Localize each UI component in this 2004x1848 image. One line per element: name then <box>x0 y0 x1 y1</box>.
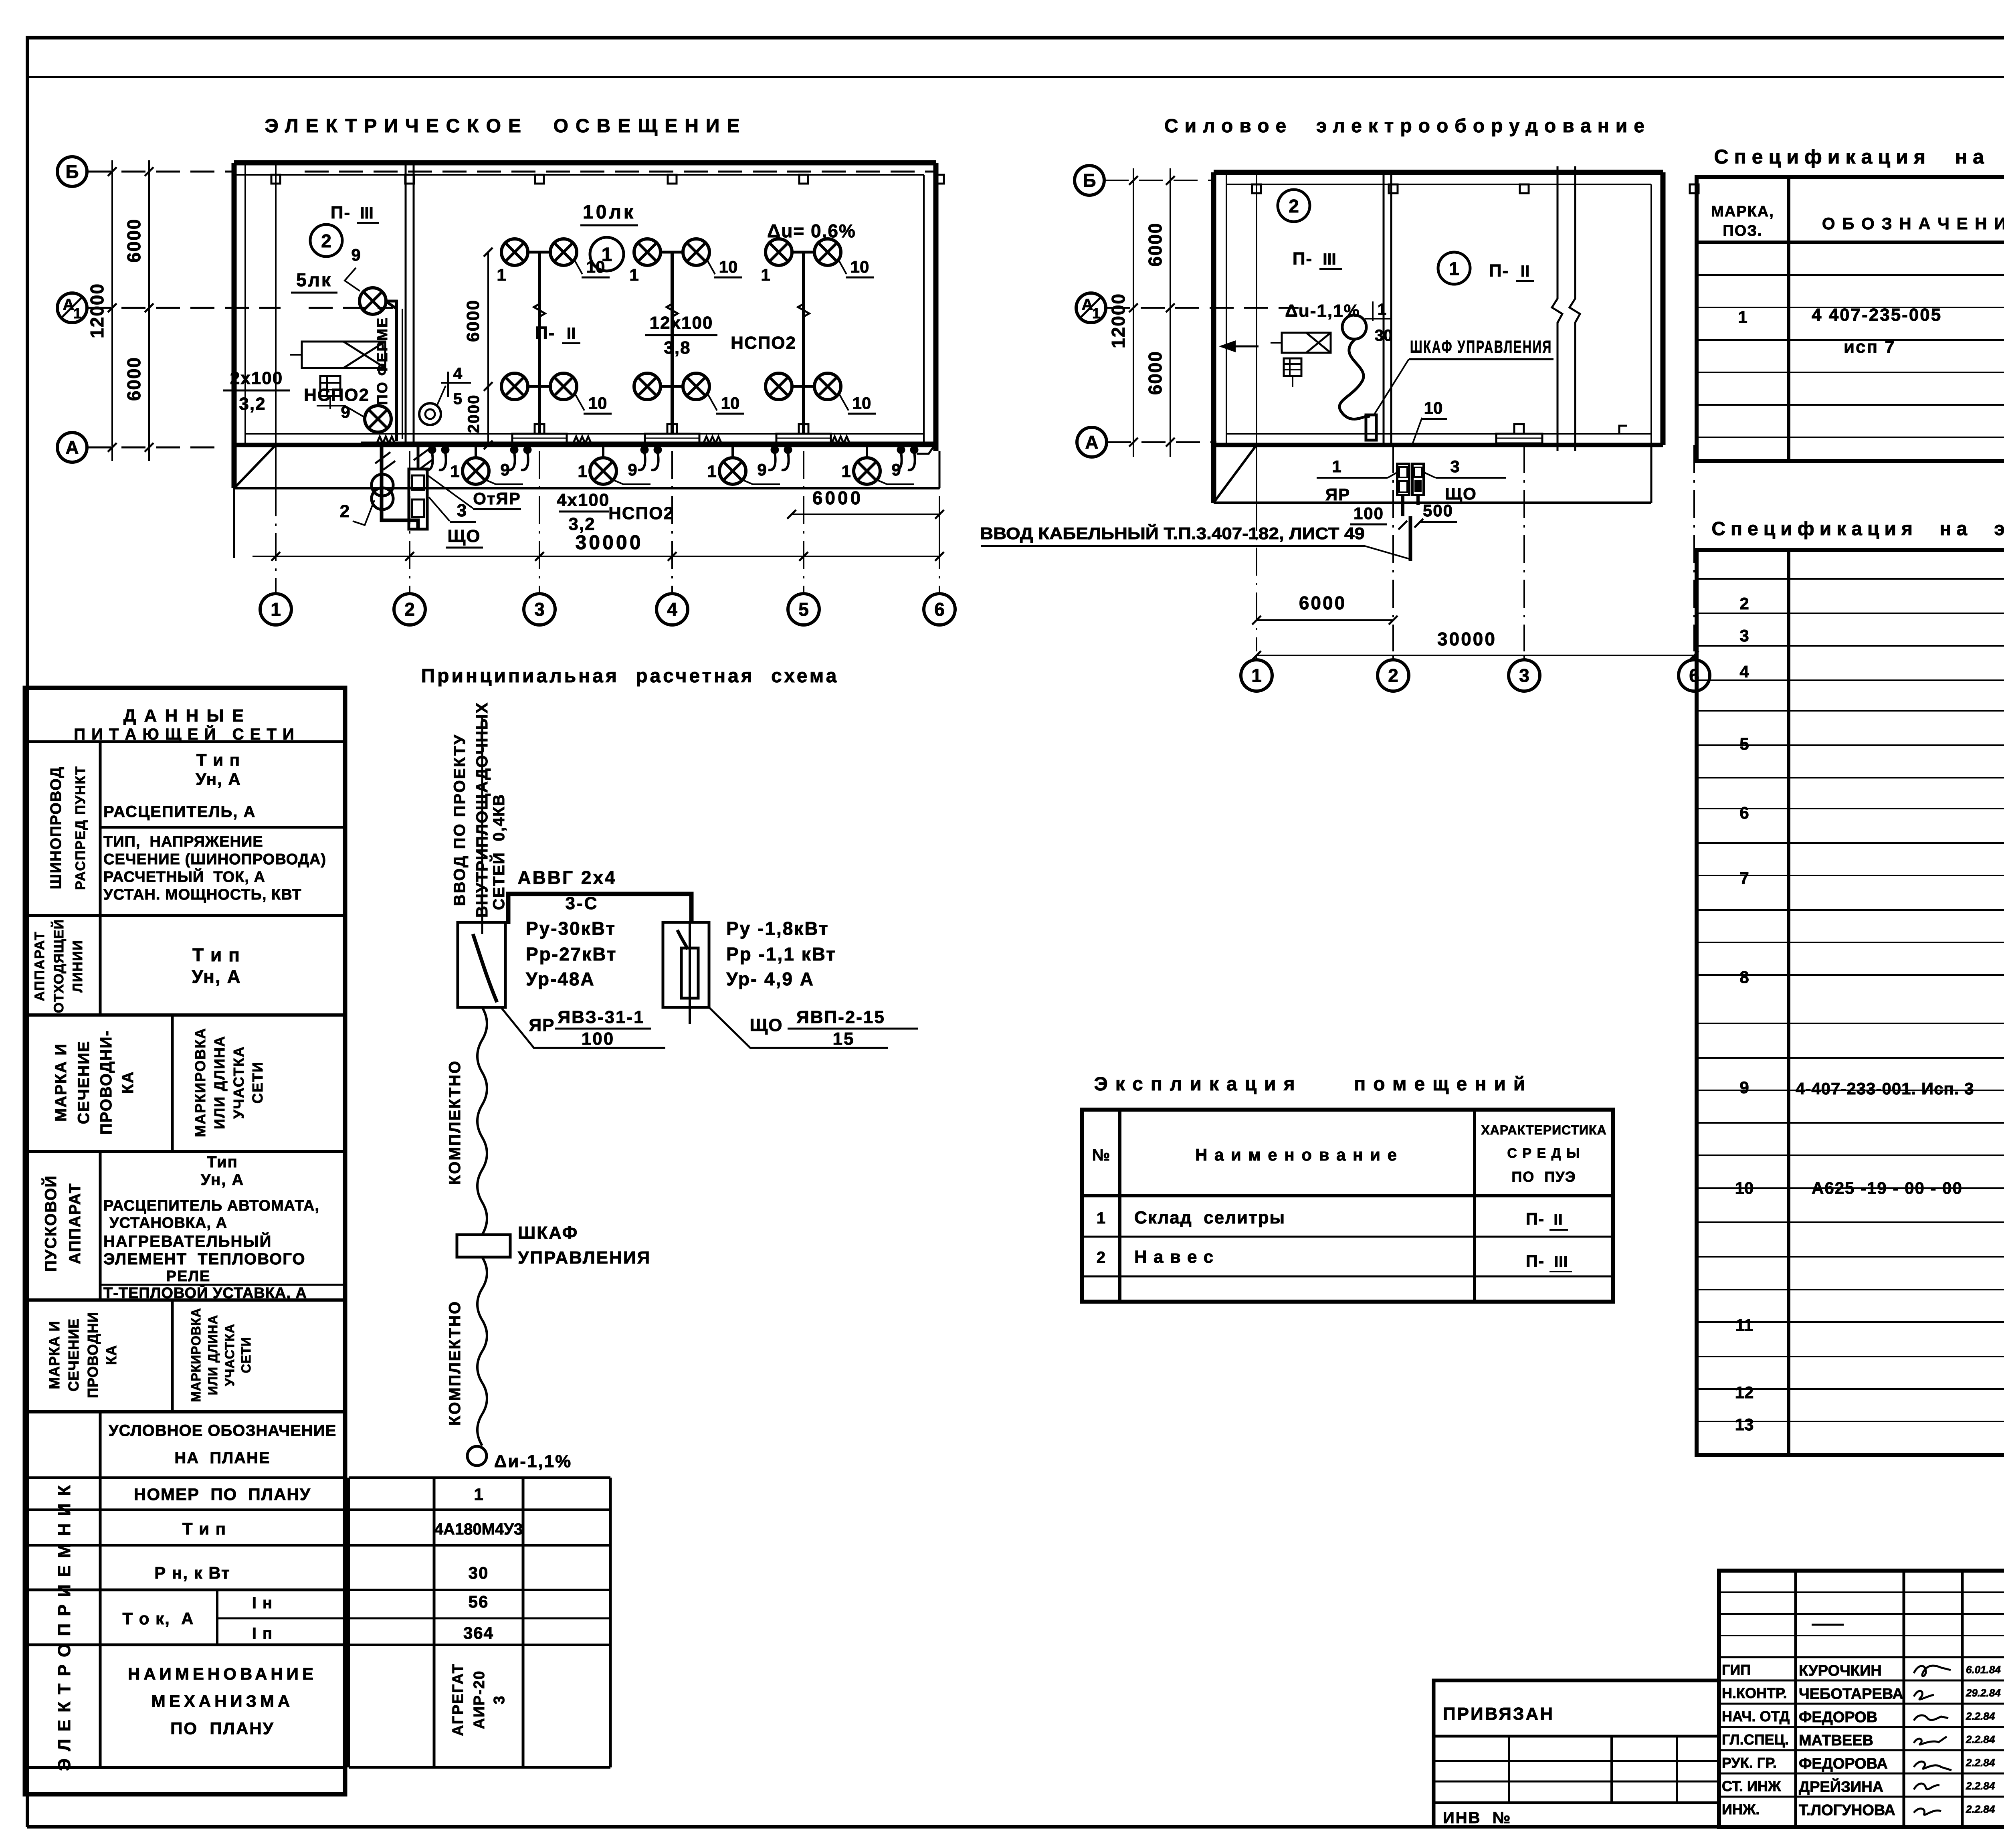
scheme squiggle komplektno 1 <box>477 1007 487 1235</box>
svg-text:НАЧ. ОТД: НАЧ. ОТД <box>1722 1708 1790 1725</box>
bottom lamp 3 drop wire <box>731 443 734 459</box>
svg-text:ПРОВОДНИ: ПРОВОДНИ <box>85 1312 101 1398</box>
spec2 row lines <box>1697 578 2004 580</box>
position circle 2 naves <box>310 224 342 257</box>
power position circle 2 <box>1278 190 1310 222</box>
svg-text:ЛИНИИ: ЛИНИИ <box>70 940 85 993</box>
left table label column divider sec4 <box>99 1152 102 1300</box>
svg-text:2х100: 2х100 <box>230 368 283 388</box>
svg-text:9: 9 <box>628 460 637 479</box>
svg-text:1: 1 <box>474 1485 483 1504</box>
svg-text:1: 1 <box>450 462 459 481</box>
svg-text:ПРИВЯЗАН: ПРИВЯЗАН <box>1443 1704 1554 1724</box>
svg-text:СЕЧЕНИЕ (ШИНОПРОВОДА): СЕЧЕНИЕ (ШИНОПРОВОДА) <box>103 851 326 868</box>
svg-text:4х100: 4х100 <box>557 490 610 510</box>
svg-text:ИЛИ ДЛИНА: ИЛИ ДЛИНА <box>211 1035 228 1129</box>
axis row circle A/1 <box>57 293 87 323</box>
leader 9 bottom lamp 1 <box>485 479 523 484</box>
lamp pair axis 3 top left <box>501 239 528 265</box>
svg-text:2.2.84: 2.2.84 <box>1966 1780 1995 1792</box>
explication outer frame <box>1082 1110 1613 1302</box>
svg-text:1: 1 <box>1097 1209 1105 1227</box>
svg-text:4: 4 <box>453 365 463 382</box>
leader lower 9 <box>317 406 364 417</box>
svg-text:2.2.84: 2.2.84 <box>1966 1803 1995 1815</box>
svg-text:А: А <box>65 437 79 458</box>
svg-text:УЧАСТКА: УЧАСТКА <box>230 1046 247 1119</box>
svg-text:2: 2 <box>1739 594 1749 613</box>
svg-text:ВВОД КАБЕЛЬНЫЙ Т.П.3.407-182,: ВВОД КАБЕЛЬНЫЙ Т.П.3.407-182, ЛИСТ 49 <box>980 524 1365 543</box>
svg-text:РАСПРЕД ПУНКТ: РАСПРЕД ПУНКТ <box>73 766 88 890</box>
building left wall inner line <box>244 163 246 445</box>
svg-text:9: 9 <box>1739 1078 1749 1097</box>
lamp pair axis 3 mid right <box>550 373 577 400</box>
svg-text:Склад селитры: Склад селитры <box>1134 1208 1285 1227</box>
svg-text:МАРКА,: МАРКА, <box>1711 203 1774 220</box>
lamp pair stub wires axis 3 mid <box>527 385 552 388</box>
svg-text:2.2.84: 2.2.84 <box>1966 1757 1995 1769</box>
svg-text:6: 6 <box>934 599 945 620</box>
switch drop hooks 1 <box>428 446 436 454</box>
power YaR box <box>1397 464 1409 495</box>
svg-text:ШКАФ: ШКАФ <box>518 1223 578 1243</box>
axis row circle A <box>57 433 87 462</box>
scheme incoming line <box>481 715 483 934</box>
svg-text:Р н, к Вт: Р н, к Вт <box>154 1563 230 1582</box>
power break mark right <box>1570 166 1580 451</box>
lamp pair stub wires axis 4 mid <box>659 385 684 388</box>
svg-text:1: 1 <box>73 305 81 321</box>
svg-text:ПО ФЕРМЕ: ПО ФЕРМЕ <box>374 317 390 405</box>
axis 1 dash-dot line below building <box>275 488 277 592</box>
transformer circles pos 2 <box>372 474 393 496</box>
svg-text:Рр -1,1 кВт: Рр -1,1 кВт <box>726 944 836 964</box>
svg-text:3: 3 <box>1739 626 1749 645</box>
svg-text:КОМПЛЕКТНО: КОМПЛЕКТНО <box>446 1060 464 1185</box>
spec2 column lines <box>1787 550 1790 1455</box>
title block outer frame <box>1719 1571 2004 1827</box>
svg-text:12: 12 <box>1735 1383 1754 1402</box>
leader to label 9 upper <box>345 268 360 291</box>
left table In Ip divider <box>217 1618 610 1620</box>
svg-text:исп 7: исп 7 <box>1844 337 1896 357</box>
building right wall inner line <box>923 175 925 445</box>
left table sec3 half divider <box>171 1015 174 1152</box>
signature table empty row lines <box>1719 1591 2004 1593</box>
svg-text:ПРОВОДНИ-: ПРОВОДНИ- <box>97 1030 115 1135</box>
svg-text:РЕЛЕ: РЕЛЕ <box>166 1268 211 1285</box>
svg-text:III: III <box>1554 1254 1568 1270</box>
svg-text:Принципиальная расчетная схема: Принципиальная расчетная схема <box>421 665 839 687</box>
power wall end hooks right <box>1619 426 1627 434</box>
left table tok sub divider <box>216 1590 218 1645</box>
power dim line 6000 <box>1257 619 1393 621</box>
power dim ticks at cable <box>1398 521 1407 530</box>
wire from canopy upper lamp to riser <box>386 301 396 439</box>
svg-text:2: 2 <box>1097 1249 1105 1266</box>
svg-text:2: 2 <box>1289 196 1299 216</box>
power position circle 1 <box>1438 252 1470 284</box>
switch drop hooks 3 <box>640 446 648 454</box>
svg-text:2.2.84: 2.2.84 <box>1966 1733 1995 1745</box>
svg-text:12000: 12000 <box>1108 293 1129 348</box>
bottom row lamp 4 <box>854 458 880 484</box>
power cable down from boxes <box>1401 495 1404 516</box>
leader 9 bottom lamp 4 <box>876 479 914 484</box>
leader YaR <box>1388 471 1400 478</box>
lamp pair stub wires axis 5 top <box>791 251 816 254</box>
power axis circle 3 bottom <box>1509 660 1540 691</box>
axis column circle 2 <box>394 594 425 625</box>
power dim line 30000 <box>1257 655 1694 656</box>
svg-text:8: 8 <box>1739 968 1749 987</box>
svg-text:О Б О З Н А Ч Е Н И Е: О Б О З Н А Ч Е Н И Е <box>1822 214 2004 233</box>
svg-text:РУК. ГР.: РУК. ГР. <box>1722 1755 1777 1771</box>
privyazan inner line <box>1434 1735 1719 1738</box>
svg-text:МАТВЕЕВ: МАТВЕЕВ <box>1799 1732 1873 1749</box>
svg-text:РАСЦЕПИТЕЛЬ, А: РАСЦЕПИТЕЛЬ, А <box>103 803 256 821</box>
svg-text:ЭЛЕКТРИЧЕСКОЕ ОСВЕЩЕНИЕ: ЭЛЕКТРИЧЕСКОЕ ОСВЕЩЕНИЕ <box>265 115 747 137</box>
power axis1 line in canopy <box>1256 172 1257 503</box>
axis 1 line through canopy <box>275 163 277 488</box>
svg-text:СЕТИ: СЕТИ <box>249 1061 266 1104</box>
switch drop hooks 4 <box>771 446 779 454</box>
scheme fuse rect <box>681 948 698 998</box>
power axis circle 6 bottom <box>1679 660 1710 691</box>
svg-text:2: 2 <box>321 230 331 251</box>
svg-text:364: 364 <box>463 1624 494 1642</box>
leader shkaf to cabinet <box>1374 359 1409 415</box>
scheme shkaf upravleniya box <box>457 1235 510 1257</box>
svg-text:I н: I н <box>252 1594 273 1612</box>
svg-text:30000: 30000 <box>575 531 643 554</box>
svg-text:Ур- 4,9 А: Ур- 4,9 А <box>726 968 814 989</box>
svg-text:4А180М4У3: 4А180М4У3 <box>434 1520 523 1538</box>
svg-text:Экспликация помещений: Экспликация помещений <box>1094 1074 1533 1095</box>
beam mount bracket axis 4 <box>645 434 699 443</box>
top wall pilaster at axis 4 <box>668 175 677 184</box>
svg-text:ФЕДОРОВА: ФЕДОРОВА <box>1799 1755 1888 1772</box>
svg-text:5лк: 5лк <box>296 269 332 290</box>
leader 9 bottom lamp 3 <box>741 479 780 484</box>
svg-text:МАРКИРОВКА: МАРКИРОВКА <box>192 1027 208 1137</box>
bottom row lamp 3 <box>719 458 746 484</box>
svg-text:НСПО2: НСПО2 <box>608 503 674 523</box>
svg-text:НОМЕР ПО ПЛАНУ: НОМЕР ПО ПЛАНУ <box>134 1485 311 1504</box>
power canopy bottom edge <box>1214 501 1651 504</box>
explication col line 1 <box>1118 1110 1121 1302</box>
scheme ShchO breaker blade <box>677 930 688 949</box>
power building bottom wall inner <box>1226 433 1651 435</box>
leader label 2 <box>353 500 374 525</box>
axis row circle B <box>57 157 87 186</box>
svg-text:А: А <box>1085 432 1098 453</box>
svg-text:6000: 6000 <box>123 357 144 401</box>
svg-text:АВВГ 2х4: АВВГ 2х4 <box>517 867 616 888</box>
svg-text:ИЛИ ДЛИНА: ИЛИ ДЛИНА <box>206 1315 220 1395</box>
svg-text:П-: П- <box>1526 1252 1544 1270</box>
interior dimension line <box>487 252 489 445</box>
bottom row lamp 1 <box>463 458 489 484</box>
svg-text:МАРКА И: МАРКА И <box>46 1321 63 1389</box>
building left wall <box>232 163 237 488</box>
svg-text:Б: Б <box>65 161 79 182</box>
svg-text:ЯВП-2-15: ЯВП-2-15 <box>796 1007 885 1027</box>
svg-text:30: 30 <box>1375 327 1393 344</box>
svg-text:4-407-233-001. Исп. 3: 4-407-233-001. Исп. 3 <box>1796 1079 1974 1098</box>
internal wall between rooms <box>405 163 407 445</box>
leader 10 mid axis 4 <box>708 395 717 410</box>
svg-text:4: 4 <box>667 599 677 620</box>
svg-text:10лк: 10лк <box>583 202 636 223</box>
lamp pair axis 5 mid right <box>814 373 841 400</box>
power cable main drop <box>1409 516 1412 561</box>
svg-text:УЧАСТКА: УЧАСТКА <box>222 1324 237 1386</box>
svg-text:10: 10 <box>719 257 738 276</box>
half arrows at junction right <box>414 450 433 468</box>
left dimension line inner <box>148 160 150 461</box>
power control cabinet symbol on wall <box>1366 415 1376 440</box>
svg-text:РАСЧЕТНЫЙ ТОК, А: РАСЧЕТНЫЙ ТОК, А <box>103 867 265 886</box>
svg-text:9: 9 <box>351 245 360 264</box>
svg-text:Тип: Тип <box>207 1153 238 1171</box>
svg-text:НА ПЛАНЕ: НА ПЛАНЕ <box>174 1449 270 1467</box>
scheme YaR box <box>458 922 505 1007</box>
lamp pair axis 4 mid right <box>683 373 709 400</box>
scheme YaR leader line <box>501 1007 665 1048</box>
bottom lamp 4 drop wire <box>866 443 868 459</box>
explication header bottom <box>1082 1194 1613 1197</box>
svg-text:9: 9 <box>757 460 766 479</box>
svg-text:А625 -19 - 00 - 00: А625 -19 - 00 - 00 <box>1812 1179 1963 1197</box>
svg-text:ПО ПЛАНУ: ПО ПЛАНУ <box>170 1719 275 1738</box>
top wall pilaster at axis 2 <box>405 175 414 184</box>
canopy left corner extension to dim line <box>233 488 235 558</box>
power axis 6 dash line below <box>1693 445 1695 651</box>
lamp pair axis 4 top left <box>634 239 661 265</box>
scheme ShchO leader line <box>709 1007 888 1048</box>
svg-text:СТ. ИНЖ: СТ. ИНЖ <box>1722 1778 1781 1794</box>
canopy corner diagonal <box>234 445 276 488</box>
dimension line 6000 right <box>792 514 939 515</box>
leader 10 mid axis 3 <box>576 395 584 410</box>
svg-text:П-: П- <box>1489 261 1509 281</box>
power building right wall <box>1661 172 1666 445</box>
svg-text:НСПО2: НСПО2 <box>731 333 796 353</box>
svg-text:А: А <box>1082 296 1093 313</box>
bottom row lamp 2 <box>590 458 616 484</box>
building outer top wall <box>234 160 936 166</box>
svg-text:2: 2 <box>340 501 349 521</box>
svg-text:Ун, А: Ун, А <box>201 1171 244 1189</box>
power axis circle B <box>1075 166 1104 195</box>
power bracket on bottom wall <box>1496 434 1542 443</box>
break mark on riser axis 5 <box>798 304 809 317</box>
svg-text:1: 1 <box>1449 258 1459 279</box>
svg-text:КА: КА <box>119 1071 137 1094</box>
svg-text:10: 10 <box>853 394 871 412</box>
svg-text:ЩО: ЩО <box>1445 484 1477 503</box>
power dim line inner <box>1170 168 1171 457</box>
svg-text:1: 1 <box>761 265 770 284</box>
privyazan row lines <box>1434 1760 1719 1762</box>
feeder loop wire wall to transformer to ShchO bottom <box>382 446 418 529</box>
svg-text:ВНУТРИПЛОЩАДОЧНЫХ: ВНУТРИПЛОЩАДОЧНЫХ <box>473 702 491 918</box>
page frame top border <box>26 36 2004 40</box>
page frame second top line <box>29 76 2004 78</box>
svg-text:П И Т А Ю Щ Е Й С Е Т И: П И Т А Ю Щ Е Й С Е Т И <box>74 725 295 743</box>
svg-text:Ру -1,8кВт: Ру -1,8кВт <box>726 918 829 939</box>
svg-text:С Р Е Д Ы: С Р Е Д Ы <box>1507 1146 1580 1161</box>
svg-text:III: III <box>360 204 373 222</box>
power building left wall <box>1211 172 1216 503</box>
svg-text:П-: П- <box>1526 1209 1544 1228</box>
page frame left border <box>26 38 29 1827</box>
group wire along bottom wall <box>361 442 936 445</box>
wire ShchO top to wall <box>417 444 420 469</box>
svg-text:Рр-27кВт: Рр-27кВт <box>526 944 617 964</box>
svg-text:3: 3 <box>491 1695 508 1704</box>
power canopy right end vertical <box>1650 445 1652 503</box>
svg-text:ОтЯР: ОтЯР <box>473 489 521 508</box>
svg-text:ПУСКОВОЙ: ПУСКОВОЙ <box>41 1175 60 1272</box>
power flexible cable squiggle <box>1339 339 1369 419</box>
svg-text:11: 11 <box>1735 1316 1753 1334</box>
svg-text:15: 15 <box>833 1029 855 1049</box>
svg-text:АППАРАТ: АППАРАТ <box>66 1183 84 1264</box>
svg-text:Н.КОНТР.: Н.КОНТР. <box>1722 1685 1787 1701</box>
svg-text:5: 5 <box>1739 734 1749 753</box>
power ShchO box <box>1412 464 1424 495</box>
svg-text:УПРАВЛЕНИЯ: УПРАВЛЕНИЯ <box>518 1248 651 1268</box>
svg-text:ГЛ.СПЕЦ.: ГЛ.СПЕЦ. <box>1722 1731 1789 1748</box>
beam mount bracket axis 3 <box>512 434 567 443</box>
lamp pair stub wires axis 3 top <box>527 251 552 254</box>
left table section lines <box>25 914 345 917</box>
scheme fuse wire through <box>689 922 691 1024</box>
leader ShchO <box>1424 472 1436 478</box>
crossing zigzag 4 on wall wire <box>832 437 850 443</box>
svg-text:ЯР: ЯР <box>529 1015 555 1035</box>
svg-text:Т о к, А: Т о к, А <box>122 1609 194 1628</box>
svg-text:Н а и м е н о в а н и е: Н а и м е н о в а н и е <box>1195 1145 1398 1164</box>
axis column circle 3 <box>524 594 555 625</box>
svg-text:Ур-48А: Ур-48А <box>526 968 595 989</box>
svg-text:12000: 12000 <box>87 283 107 338</box>
svg-text:Ру-30кВт: Ру-30кВт <box>526 918 616 939</box>
svg-text:II: II <box>567 325 576 342</box>
svg-text:56: 56 <box>469 1592 489 1611</box>
svg-text:А: А <box>63 296 75 313</box>
spec1 header bottom line <box>1697 241 2004 244</box>
svg-text:6.01.84: 6.01.84 <box>1966 1664 2001 1676</box>
riser wire axis 5 <box>802 252 805 434</box>
svg-text:ЩО: ЩО <box>749 1015 783 1035</box>
power axis 2 dash line below <box>1392 445 1394 651</box>
svg-text:III: III <box>1323 251 1336 268</box>
svg-text:1: 1 <box>1738 307 1747 326</box>
lamp pair axis 5 top right <box>814 239 841 265</box>
privyazan column lines <box>1508 1736 1510 1803</box>
axis line B dashed <box>87 171 236 173</box>
top wall pilaster at axis 6 <box>935 175 944 184</box>
svg-text:3,2: 3,2 <box>239 394 266 414</box>
canopy bottom edge line <box>234 487 939 489</box>
crossing zigzag 2 on wall wire <box>573 437 591 443</box>
power vent unit dash-dot box <box>1282 333 1331 353</box>
svg-text:1: 1 <box>841 462 850 481</box>
svg-text:Т-ТЕПЛОВОЙ УСТАВКА, А: Т-ТЕПЛОВОЙ УСТАВКА, А <box>103 1284 307 1302</box>
lamp in canopy lower pos 9 <box>365 406 391 432</box>
leader OtYaR to wire <box>427 475 473 508</box>
svg-text:500: 500 <box>1423 501 1453 520</box>
power pilaster axis 1 <box>1252 184 1261 193</box>
svg-text:РАСЦЕПИТЕЛЬ АВТОМАТА,: РАСЦЕПИТЕЛЬ АВТОМАТА, <box>103 1197 319 1214</box>
power axis 1 dash line below <box>1256 503 1257 651</box>
scheme YaR breaker blade <box>473 934 497 1002</box>
left table outer frame <box>25 688 345 1794</box>
svg-text:10: 10 <box>1735 1179 1754 1197</box>
power canopy diagonal <box>1214 445 1257 503</box>
power small hatched square <box>1284 358 1301 376</box>
svg-text:АГРЕГАТ: АГРЕГАТ <box>450 1663 467 1736</box>
left dimension line outer <box>111 160 113 461</box>
svg-text:1: 1 <box>1332 457 1341 476</box>
svg-text:КОМПЛЕКТНО: КОМПЛЕКТНО <box>446 1300 464 1425</box>
break mark on riser axis 3 <box>534 304 545 317</box>
axis line A dashed <box>87 447 224 449</box>
position fraction 4/5 marker <box>447 372 449 397</box>
svg-text:Δи-1,1%: Δи-1,1% <box>494 1452 572 1471</box>
leader 10 top axis 4 <box>707 261 715 274</box>
left table sec1 sub divider <box>100 826 345 829</box>
svg-text:6000: 6000 <box>1145 351 1166 395</box>
svg-text:МАРКИРОВКА: МАРКИРОВКА <box>189 1308 203 1402</box>
lamp pair axis 5 mid left <box>766 373 792 400</box>
svg-text:Ун, А: Ун, А <box>196 770 241 789</box>
power axis circle 1 bottom <box>1241 660 1272 691</box>
svg-text:1: 1 <box>1251 665 1262 686</box>
svg-text:6000: 6000 <box>463 299 483 342</box>
svg-text:30: 30 <box>469 1563 489 1582</box>
bottom lamp 1 drop wire <box>475 443 477 459</box>
spec1 outer frame <box>1697 177 2004 461</box>
svg-text:ПОЗ.: ПОЗ. <box>1723 222 1762 239</box>
svg-text:6000: 6000 <box>1145 222 1166 267</box>
power pilaster axis 2 <box>1389 184 1398 193</box>
power fraction 1/30 marker <box>1372 301 1374 321</box>
ventilation small square symbol <box>320 376 340 396</box>
power axis line B dashed <box>1105 180 1214 181</box>
svg-text:6000: 6000 <box>123 218 144 263</box>
power axis line A/1 dashed <box>1106 307 1299 309</box>
svg-text:7: 7 <box>1739 869 1749 888</box>
svg-text:ЧЕБОТАРЕВА: ЧЕБОТАРЕВА <box>1799 1686 1903 1702</box>
axis column circle 5 <box>788 594 819 625</box>
leader 9 bottom lamp 2 <box>612 479 650 484</box>
svg-text:12х100: 12х100 <box>650 313 713 333</box>
svg-text:ГИП: ГИП <box>1722 1662 1751 1678</box>
power axis circle A/1 <box>1076 293 1106 323</box>
svg-text:ЯВЗ-31-1: ЯВЗ-31-1 <box>558 1007 644 1027</box>
switch drop hooks 2 <box>510 446 518 454</box>
half arrows at junction left <box>375 452 395 470</box>
crossing zigzag 1 on wall wire <box>377 437 395 443</box>
svg-text:10: 10 <box>721 394 740 412</box>
riser wire axis 3 <box>538 252 541 434</box>
svg-text:II: II <box>1554 1211 1563 1228</box>
svg-text:10: 10 <box>1424 398 1443 417</box>
